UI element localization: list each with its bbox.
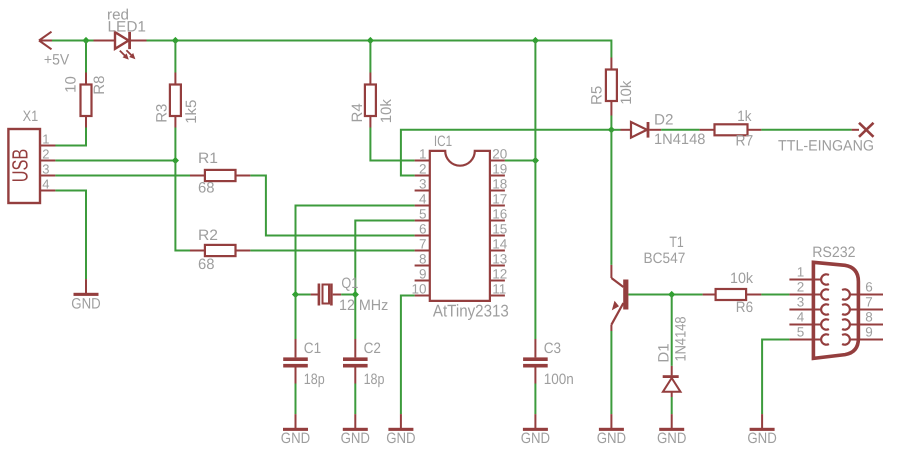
svg-text:GND: GND (521, 430, 551, 447)
svg-text:100n: 100n (544, 371, 574, 388)
wire R7 to TTL-EINGANG (761, 129, 851, 131)
ground (C2) (341, 414, 371, 447)
svg-text:GND: GND (281, 430, 311, 447)
svg-text:TTL-EINGANG: TTL-EINGANG (778, 138, 874, 155)
wire R2 to IC pin7 (250, 250, 414, 252)
svg-text:4: 4 (797, 310, 805, 325)
connector RS232 (DB9) (789, 244, 883, 358)
LED LED1 (red) (94, 7, 147, 60)
svg-text:20: 20 (492, 147, 507, 162)
connector X1 USB (8, 108, 56, 203)
ground (IC pin10) (386, 414, 416, 447)
svg-text:2: 2 (42, 147, 49, 162)
junction rail-VCC (532, 37, 539, 44)
svg-text:18p: 18p (364, 371, 385, 388)
svg-text:GND: GND (386, 430, 416, 447)
diode D2 (1N4148) (611, 111, 705, 148)
svg-text:BC547: BC547 (644, 250, 686, 267)
svg-text:C3: C3 (544, 340, 561, 357)
svg-text:C2: C2 (364, 340, 381, 357)
+5V supply symbol (39, 32, 69, 69)
junction rail-R4 (367, 37, 374, 44)
resistor R8 (10) (62, 41, 108, 128)
svg-text:RS232: RS232 (812, 244, 855, 261)
junction crystal-C1 (292, 291, 299, 298)
junction rail-R8 (82, 37, 89, 44)
svg-text:D2: D2 (654, 111, 674, 128)
svg-text:9: 9 (419, 267, 427, 282)
svg-text:R1: R1 (198, 150, 218, 167)
svg-text:10: 10 (411, 282, 426, 297)
svg-text:68: 68 (198, 256, 215, 273)
svg-text:1N4148: 1N4148 (673, 317, 690, 362)
svg-text:1: 1 (419, 147, 427, 162)
wire node to R2 (175, 161, 190, 251)
svg-text:10k: 10k (618, 80, 635, 105)
resistor R2 (68) (190, 227, 250, 273)
ground (D1) (657, 414, 687, 447)
svg-text:USB: USB (8, 149, 33, 183)
svg-text:4: 4 (419, 192, 427, 207)
svg-text:6: 6 (419, 222, 427, 237)
svg-text:8: 8 (419, 252, 427, 267)
svg-text:14: 14 (492, 237, 508, 252)
wire +5V rail (LED1 to R5) (147, 41, 612, 58)
svg-text:GND: GND (71, 295, 101, 312)
junction RXD node (608, 126, 615, 133)
transistor T1 (BC547) (611, 234, 685, 331)
crystal Q1 (12 MHz) (296, 275, 389, 314)
svg-text:R6: R6 (736, 299, 753, 316)
svg-text:R2: R2 (198, 227, 218, 244)
svg-text:1k5: 1k5 (183, 100, 200, 124)
svg-text:Q1: Q1 (341, 275, 358, 292)
svg-text:X1: X1 (23, 108, 39, 125)
wire +5V rail (left of LED1) (52, 40, 94, 42)
ground (T1 emitter) (597, 414, 627, 447)
wire IC pin20 to VCC node (505, 160, 536, 162)
wire USB pin3 to R1 (55, 175, 190, 177)
svg-text:5: 5 (797, 325, 805, 340)
svg-text:3: 3 (797, 295, 805, 310)
svg-text:10: 10 (62, 76, 79, 93)
wire USB pin4 to GND (55, 191, 86, 280)
wire IC pin5 to crystal (355, 221, 414, 295)
svg-text:17: 17 (492, 192, 507, 207)
svg-text:T1: T1 (669, 234, 683, 251)
svg-text:R7: R7 (736, 133, 754, 150)
wire RS232 pin5 to GND (762, 340, 789, 415)
svg-text:5: 5 (419, 207, 427, 222)
diode D1 (1N4148) (655, 317, 689, 415)
junction pin2-R3 (172, 157, 179, 164)
wire R1 to IC pin6 (250, 176, 414, 236)
wire R8 to USB pin1 (55, 128, 86, 146)
capacitor C2 (18p) (343, 295, 385, 415)
resistor R7 (1k) (700, 108, 762, 150)
svg-text:IC1: IC1 (434, 133, 452, 150)
node TTL-EINGANG (778, 123, 874, 155)
junction base-D1 (668, 291, 675, 298)
ground (USB pin4) (71, 279, 101, 312)
wire USB pin2 (55, 160, 175, 162)
resistor R3 (1k5) (153, 41, 200, 161)
svg-text:7: 7 (865, 295, 873, 310)
wire IC pin2 to RXD node (401, 130, 612, 176)
svg-text:3: 3 (42, 162, 49, 177)
junction rail-R3 (172, 37, 179, 44)
svg-text:16: 16 (492, 207, 507, 222)
svg-text:18p: 18p (304, 371, 325, 388)
svg-text:8: 8 (865, 310, 873, 325)
svg-text:10k: 10k (730, 270, 754, 287)
svg-text:C1: C1 (304, 340, 321, 357)
svg-text:LED1: LED1 (108, 18, 147, 35)
svg-text:11: 11 (492, 282, 506, 297)
wire T1 base (628, 294, 702, 296)
svg-text:D1: D1 (655, 343, 672, 362)
svg-text:1: 1 (42, 132, 49, 147)
svg-text:19: 19 (492, 162, 507, 177)
svg-text:1: 1 (797, 265, 805, 280)
svg-text:1N4148: 1N4148 (654, 131, 705, 148)
resistor R1 (68) (190, 150, 250, 197)
capacitor C3 (100n) (523, 339, 574, 414)
svg-text:4: 4 (42, 177, 49, 192)
resistor R5 (10k) (588, 58, 635, 130)
svg-text:15: 15 (492, 222, 507, 237)
svg-text:9: 9 (865, 325, 873, 340)
resistor R4 (10k) (349, 41, 395, 128)
svg-text:13: 13 (492, 252, 507, 267)
wire VCC riser (rail to C3) (534, 41, 536, 340)
svg-text:R4: R4 (349, 103, 366, 122)
resistor R6 (10k) (703, 270, 762, 316)
svg-text:AtTiny2313: AtTiny2313 (433, 302, 509, 321)
svg-text:6: 6 (865, 280, 873, 295)
junction crystal-C2 (352, 291, 359, 298)
capacitor C1 (18p) (283, 295, 324, 415)
svg-text:2: 2 (419, 162, 427, 177)
junction VCC node (532, 157, 539, 164)
wire IC pin4 to crystal (296, 206, 415, 295)
svg-text:3: 3 (419, 177, 427, 192)
svg-text:68: 68 (198, 180, 215, 197)
svg-text:7: 7 (419, 237, 427, 252)
wire R6 to RS232 pin2 (761, 294, 789, 296)
wire IC pin10 to GND (401, 296, 415, 415)
svg-text:R3: R3 (153, 104, 170, 123)
svg-text:+5V: +5V (44, 52, 69, 69)
wire T1 emitter to GND (610, 331, 612, 414)
ground (RS232 pin5) (747, 414, 777, 447)
svg-text:18: 18 (492, 177, 507, 192)
wire node to D1 (671, 295, 673, 366)
wire R4 to IC pin1 (370, 128, 414, 161)
svg-text:GND: GND (597, 430, 627, 447)
svg-text:GND: GND (341, 430, 371, 447)
ground (C1) (281, 414, 311, 447)
svg-text:12: 12 (492, 267, 507, 282)
svg-text:1k: 1k (737, 108, 752, 125)
svg-text:12 MHz: 12 MHz (339, 297, 388, 314)
svg-text:R5: R5 (588, 86, 605, 105)
svg-text:10k: 10k (378, 99, 395, 124)
ground (C3) (521, 414, 551, 447)
svg-text:GND: GND (657, 430, 687, 447)
svg-text:R8: R8 (91, 76, 108, 95)
wire RXD node to T1 collector (610, 130, 612, 265)
svg-text:GND: GND (747, 430, 777, 447)
IC U1 IC1 AtTiny2313 (411, 133, 508, 321)
svg-text:2: 2 (797, 280, 805, 295)
